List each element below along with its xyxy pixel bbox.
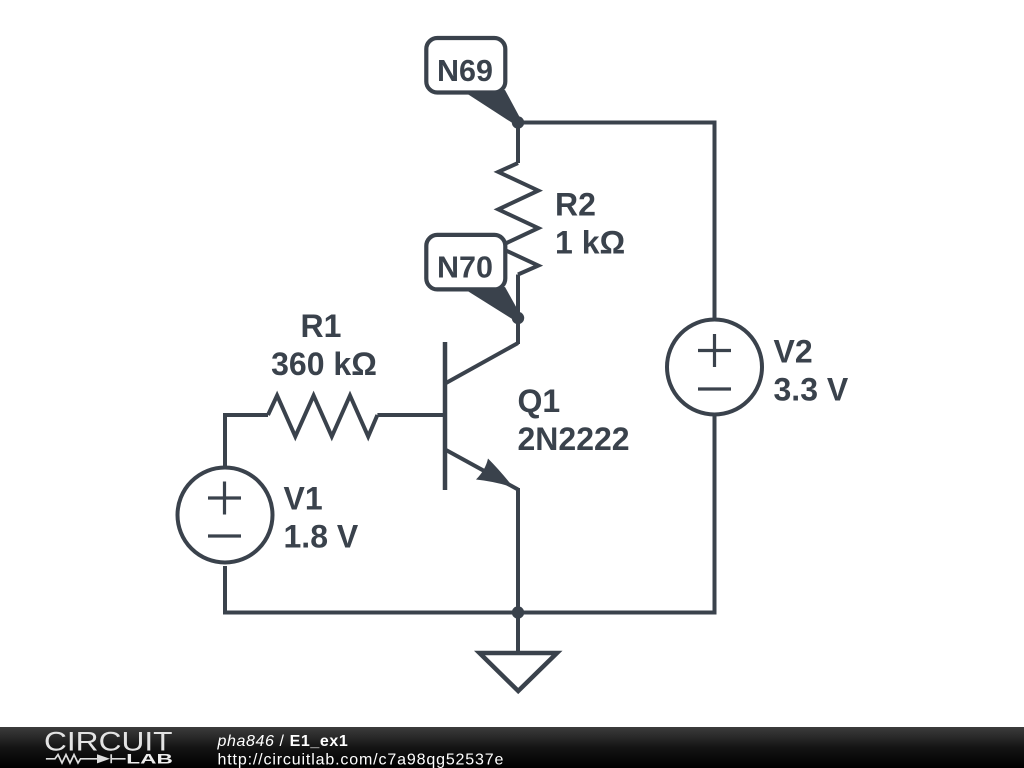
svg-text:3.3 V: 3.3 V <box>774 372 849 408</box>
wire: collector vertical to node N70 <box>516 318 520 344</box>
svg-text:360 kΩ: 360 kΩ <box>271 346 377 382</box>
Q1 base bar <box>443 342 448 490</box>
footer bar <box>0 727 1024 768</box>
resistor R1 <box>268 396 377 437</box>
wire: bottom ground rail <box>225 611 717 615</box>
svg-text:R2: R2 <box>555 187 596 223</box>
resistor R2 (top lead, zigzag, bottom lead) <box>498 123 538 319</box>
svg-text:V1: V1 <box>284 481 323 517</box>
node dot at ground junction <box>512 606 524 618</box>
svg-text:1.8 V: 1.8 V <box>284 519 359 555</box>
Q1 emitter diagonal <box>446 450 518 490</box>
wire: top rail from node N69 to top-right corner <box>518 121 717 125</box>
svg-text:http://circuitlab.com/c7a98qg5: http://circuitlab.com/c7a98qg52537e <box>218 752 505 768</box>
voltage source V1 <box>178 468 273 563</box>
Q1 collector diagonal <box>446 343 518 383</box>
svg-text:V2: V2 <box>774 334 813 370</box>
ground symbol <box>480 613 558 692</box>
svg-text:N69: N69 <box>437 54 493 88</box>
wire: left vertical from V1 plus terminal up to base rail <box>223 413 227 467</box>
wire: left vertical from V1 minus terminal to bottom rail <box>223 566 227 615</box>
svg-text:R1: R1 <box>301 308 342 344</box>
wire: right vertical from top corner down to V2 plus terminal <box>713 121 717 321</box>
wire: right vertical from V2 minus terminal down to bottom rail <box>713 415 717 615</box>
node dot at N70 junction <box>512 312 524 324</box>
transistor Q1 <box>445 342 518 490</box>
wire: emitter vertical down to ground node <box>516 488 520 613</box>
svg-text:2N2222: 2N2222 <box>518 421 630 457</box>
svg-text:1 kΩ: 1 kΩ <box>555 225 625 261</box>
svg-text:N70: N70 <box>437 251 493 285</box>
voltage source V2 <box>667 320 762 415</box>
node dot at N69 junction <box>512 116 524 128</box>
CircuitLab logo resistor-diode squiggle <box>46 754 126 763</box>
net label N69 <box>426 38 520 125</box>
wire: base rail from R1 to Q1 base <box>377 413 445 417</box>
Q1 emitter arrowhead <box>476 459 514 488</box>
svg-text:Q1: Q1 <box>518 383 561 419</box>
wire: base rail left lead into R1 <box>223 413 268 417</box>
net label N70 <box>426 235 520 321</box>
svg-text:pha846 / E1_ex1: pha846 / E1_ex1 <box>217 733 349 750</box>
svg-text:LAB: LAB <box>126 750 173 766</box>
